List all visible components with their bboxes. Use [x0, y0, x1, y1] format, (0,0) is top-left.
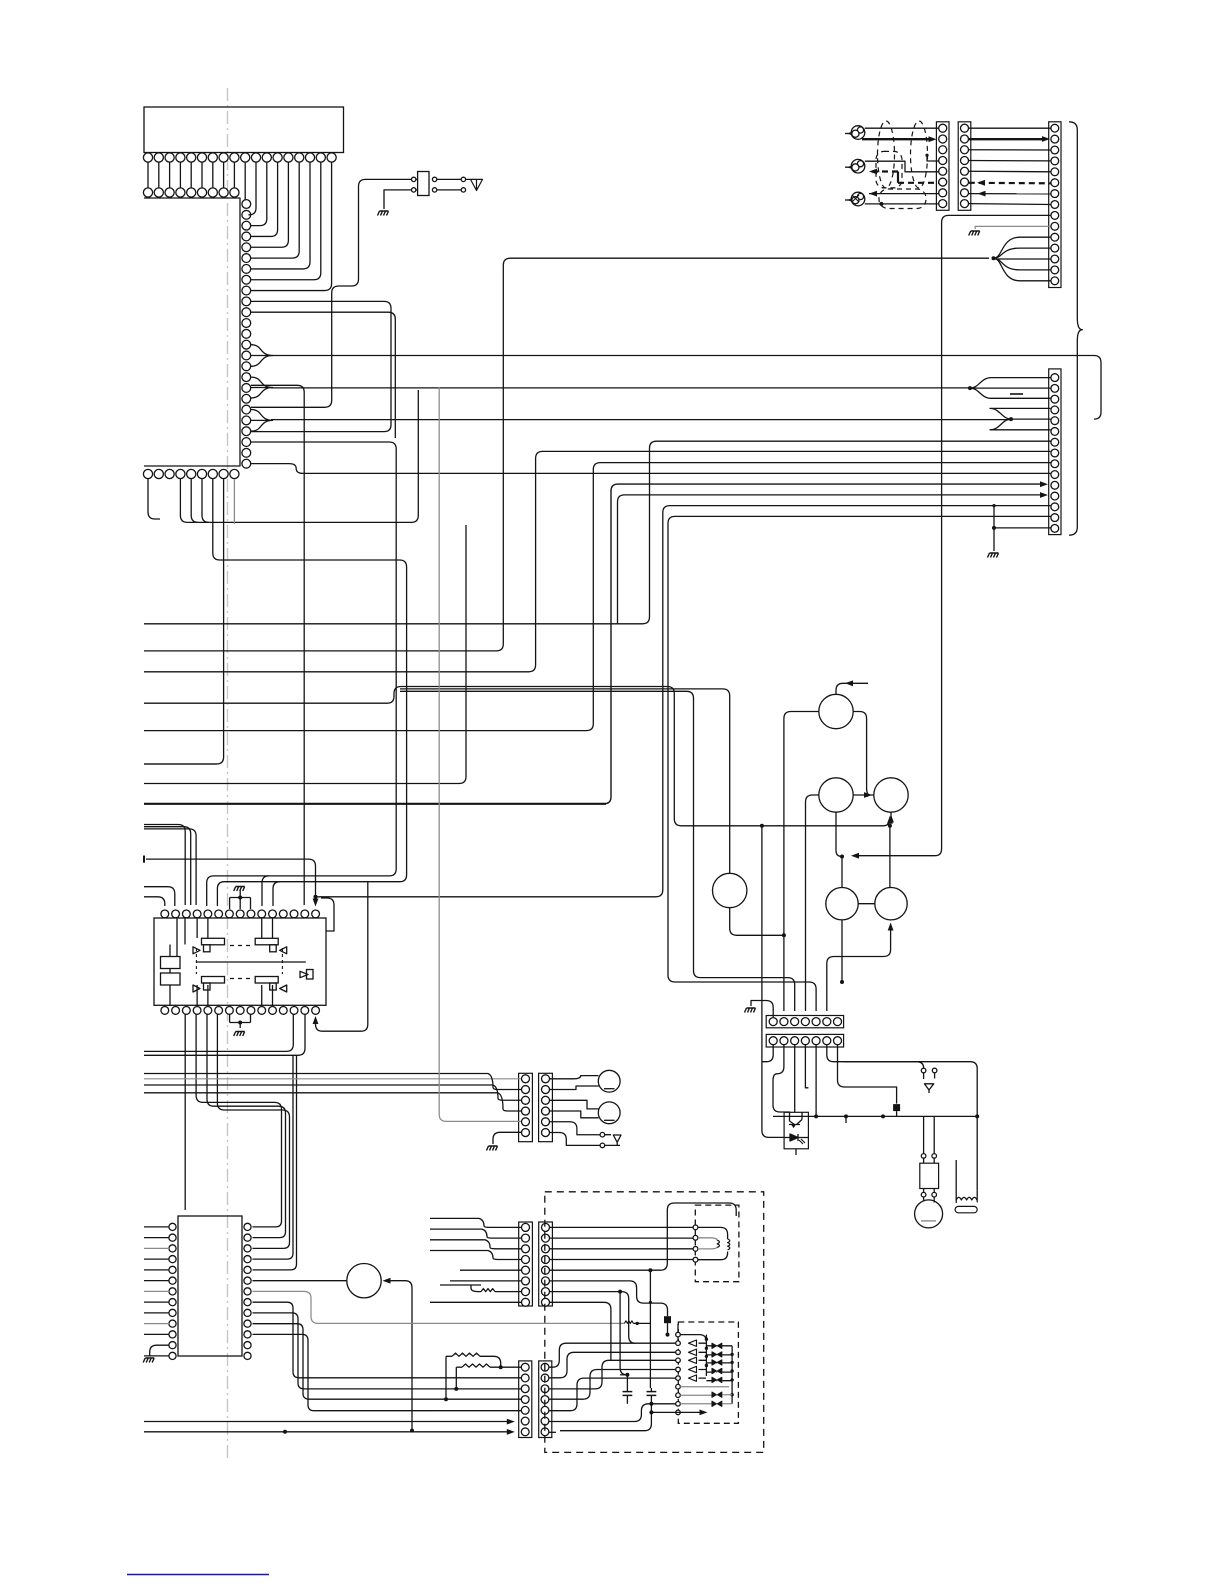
U2 top pins [161, 910, 169, 918]
RCA jack J1 [851, 126, 865, 140]
sensor wiring gray [680, 1387, 732, 1404]
wire fuse right links [437, 178, 461, 180]
wire M4 bottom [730, 908, 784, 936]
U2 bottom pins [161, 1007, 169, 1015]
wire bundle into IC3 right pins4-5 [253, 1055, 294, 1259]
wire CN6-B pin8 [550, 1302, 611, 1360]
wire CN6-B pins1-4 to TR box [550, 1226, 693, 1228]
capacitor C2 [650, 1388, 652, 1392]
wire M2 left drop [806, 795, 819, 1011]
wire merge IC1 col k16-18 [251, 377, 273, 398]
wire branch to optocoupler [762, 826, 784, 1138]
wire CN4-B pin1 drop [762, 1045, 774, 1062]
wire J1 to CN-A pin1 [865, 127, 939, 129]
wire CN-B CN1 bold pin2 [969, 138, 1043, 140]
wire band y650.9 to CN1 merge [144, 258, 989, 651]
head coil 2 [728, 1239, 730, 1250]
CN5-B pins [542, 1075, 550, 1083]
dashed box main [545, 1192, 764, 1453]
wire IC3 left pin12 ground [150, 1345, 169, 1356]
motor M8 [347, 1264, 381, 1298]
wire U2 bottom drops [184, 1015, 186, 1211]
CN1 pins [1051, 124, 1059, 132]
CN-B pins [961, 124, 969, 132]
wire J2 to CN-A pin5 [865, 161, 939, 172]
U4 transistor [789, 1112, 802, 1124]
wire M8 right [390, 1281, 412, 1431]
wire U2 right loop top [321, 898, 334, 931]
IC3 body [178, 1216, 242, 1356]
wire stub tick to U2 pin15 area [146, 859, 316, 901]
IC3 left pins [169, 1223, 176, 1230]
wire CN3 pin14 to CN4 [668, 516, 1051, 1011]
wires IC3 right pins8-11 down [253, 1302, 431, 1378]
wire coil right [976, 1190, 978, 1202]
connector CN1 body [1049, 122, 1061, 288]
S1 flag [605, 1135, 621, 1146]
wire drop x846 [845, 1116, 847, 1123]
U2 transistor Q-tr [255, 938, 278, 945]
wire CN5B pin5 to S1 [550, 1122, 600, 1135]
wire J2 dashed bold [872, 170, 898, 172]
wire band y803.8 bold to CN3 pin11 [144, 803, 606, 805]
wire CN4-B pin7 drop [838, 1045, 897, 1104]
wire IC1 pin7 to U2 pin6 [213, 479, 407, 906]
wire IC1 pin9 gray down [233, 479, 235, 524]
U2 internal resistor R-b [161, 973, 181, 985]
connector CN-B body [958, 122, 971, 211]
wire CN7 pin4 [430, 1398, 521, 1400]
wire CN4-B pin5 drop [815, 1045, 817, 1116]
wire CN4 pin1 ground [751, 1001, 773, 1018]
wire CN5 pin6 ground [493, 1132, 521, 1144]
wire bus IC1 pins4-6 right-up [180, 479, 187, 522]
bus line y1421.5 [144, 1421, 508, 1423]
IC3 right pins [244, 1223, 251, 1230]
wire CN-B CN1 pin7 arrow [969, 193, 1051, 195]
resistor R-cn6 pin7 [481, 1289, 495, 1292]
wire CN7 pin5 [430, 1410, 521, 1412]
wire CN4-B pin6 drop [827, 1045, 924, 1068]
sensor terminal circles [676, 1332, 681, 1337]
U2 mid rail [196, 961, 306, 963]
connector CN-A body [936, 122, 949, 211]
U4 led [790, 1134, 798, 1141]
wire band y730.6 to CN3 pin9 [144, 463, 1051, 731]
wire into U2 top pin1 [144, 897, 165, 906]
IC1 right pin column [242, 200, 251, 209]
RCA jack J2 [851, 159, 865, 173]
wires CN-B to CN1 [969, 127, 1051, 129]
motor M9 [598, 1070, 620, 1092]
dashed box head [695, 1205, 739, 1282]
U2 body [154, 918, 326, 1005]
wire CN6-B pin7 [550, 1292, 636, 1344]
CN3 pins [1051, 374, 1059, 382]
wire CN4-B pin2 drop [773, 1045, 790, 1112]
negation bar CN3 pin3 [1010, 393, 1023, 395]
wire band y703 S to M3 [144, 687, 890, 826]
U2 transistor Q-tl [202, 938, 225, 945]
wire col k10 stub [251, 312, 395, 438]
wire fan CN-top to IC1 side pins [244, 162, 246, 200]
wire band y691 to CN4 [400, 691, 795, 1011]
switch S1 [600, 1132, 605, 1137]
sensor feed square [664, 1316, 671, 1323]
shield box C [876, 151, 902, 188]
wire J1 bold to CN-A pin2 [862, 138, 929, 140]
connector CN4-B body [766, 1034, 843, 1047]
connector CN6-A body [519, 1222, 533, 1306]
wire CN5B pin2 to M9 [550, 1086, 599, 1090]
U2 dashes [230, 945, 254, 947]
fold line [227, 88, 229, 1462]
CN-A pins [939, 124, 947, 132]
wire band y783.5 [144, 525, 466, 784]
wire CN5 pins2-4 S-curves [420, 1074, 521, 1090]
CN6-A pins [522, 1223, 530, 1231]
wire right loop CN4 to coil [844, 1062, 978, 1191]
wire U2 bottom to left y1055 [144, 1015, 305, 1056]
photo sensors triangles [689, 1340, 697, 1346]
motor M5 [826, 888, 858, 920]
wire M2 bottom junction [836, 812, 842, 887]
wire CN5 pin5 gray [439, 388, 521, 1122]
wire stub U2 pin11 curve [273, 882, 280, 906]
sensor bus right vert [731, 1346, 733, 1404]
sensor wiring [680, 1335, 706, 1342]
wire col k9 loop [251, 301, 391, 431]
wire merge IC1 col k19-21 [251, 410, 273, 432]
fuse terminal circles [412, 177, 416, 181]
wire IC3 pin7 gray [253, 1291, 625, 1323]
connector CN6-B body [539, 1222, 553, 1306]
fuse body [418, 172, 429, 196]
CN5-A pins [522, 1075, 530, 1083]
bus line y1431.8 [144, 1431, 508, 1433]
RCA jack J3 [851, 192, 865, 206]
IC1 bottom pin row [143, 469, 152, 478]
wire col k24 to CN3 pin10 [251, 464, 1051, 474]
IC1 top pin row [143, 188, 152, 197]
ground below U2 [239, 1023, 241, 1029]
connector CN3 body [1049, 369, 1061, 535]
U2 internal verticals [196, 918, 198, 938]
connector CN5-B body [539, 1073, 553, 1141]
wire S3 to R [923, 1158, 925, 1163]
U2 right triangle [300, 971, 308, 977]
wire M4 top [400, 689, 730, 873]
wire line y387 to CN3 pins1-3 [271, 387, 970, 389]
wire CN7 pin3 [430, 1388, 521, 1390]
CN4-B pins [769, 1037, 777, 1045]
CN-top pins [143, 153, 152, 162]
wire U2 bottom bus to IC3 [196, 1015, 281, 1227]
switch S2 [921, 1068, 926, 1073]
wire J3 to CN-A pin8 [865, 203, 939, 205]
wire M5 bottom [841, 920, 843, 982]
wire CN4-B pin3 drop [794, 1045, 796, 1112]
CN4-A pins [769, 1018, 777, 1026]
wire U4 bottom exit [795, 1149, 797, 1155]
wire into U2 top pin2 [144, 887, 175, 906]
wire line y419 to CN3 pins4-6 [271, 419, 1011, 421]
wire band y764 [144, 763, 217, 765]
sensor row10 arrow [653, 1411, 700, 1413]
wire CN3 pin15 + ground [994, 506, 1051, 528]
wire M1 left drop [784, 712, 819, 1012]
wire CN6-B pin6 [550, 1281, 668, 1316]
wire M6 bottom to CN4 pin6 [827, 925, 891, 1012]
wire CN1 pin9 big corner [853, 215, 1051, 855]
wire CN1 pin10 ground [975, 226, 1050, 229]
off-page arrow near fuse [466, 179, 483, 190]
wire CN1 pins11-15 merge [994, 237, 1051, 258]
head winding wires [698, 1227, 728, 1259]
connector CN7-A body [519, 1361, 532, 1438]
motor M6 [875, 888, 907, 920]
motor M10 [598, 1102, 620, 1124]
sensor bus left vert [705, 1335, 707, 1376]
resistor branch b [445, 1356, 447, 1399]
shield ellipse B [911, 121, 928, 188]
IC1 body outline [144, 198, 240, 466]
wire stub U2 pin10 curve [262, 876, 269, 906]
wire cap rail [620, 1374, 627, 1376]
shield stadium D [879, 189, 926, 209]
wire CN5 feeds from left [144, 1073, 420, 1075]
connector CN7-B body [539, 1361, 552, 1438]
U2 internal link [169, 945, 171, 957]
brace right [1069, 122, 1082, 535]
wires CN6-A feeds pins5-8 [430, 1270, 521, 1302]
wire CN6-B pin5 [550, 1203, 736, 1270]
motor M7 [915, 1200, 943, 1228]
footer rule [127, 1574, 269, 1576]
wire CN5B pin1 to M9 [550, 1076, 599, 1079]
wire M3 bottom arrow [890, 812, 892, 823]
resistor R-M7 body [920, 1163, 939, 1188]
wire CN3 pin13 to U2 pin15 [316, 506, 1051, 897]
wire CN5 pin1 feed gray [144, 1078, 521, 1080]
switch S3 contacts [921, 1154, 926, 1159]
wires CN-top to IC1 top pins [147, 162, 149, 188]
wire CN7 pin2 [430, 1377, 521, 1379]
wire M1 top arrow [836, 683, 868, 694]
wire band y623.8 to CN3 pin7 [144, 441, 1051, 624]
CN6-B pins [542, 1223, 550, 1231]
wire c2 bottom exit [560, 1404, 651, 1431]
LED pairs [712, 1343, 722, 1348]
wire CN4-B pin4 drop [805, 1045, 808, 1088]
wire IC3 pin6 to M8 [253, 1280, 348, 1282]
U2 internal resistor R-a [161, 957, 181, 969]
head coil 1 [717, 1240, 719, 1247]
wire CN-A pin4 jog [927, 156, 939, 162]
CN7-B pins [541, 1363, 549, 1371]
wire CN-B CN1 dashed pin6 [969, 182, 1051, 185]
wire line y355 right [271, 356, 1101, 420]
optocoupler U4 box [784, 1112, 808, 1149]
wire fuse feed left [251, 179, 417, 407]
wire merge IC1 col k13-15 [251, 345, 273, 367]
wire M6 top from junction [889, 826, 891, 888]
wire rail y1116 [773, 1115, 977, 1117]
connector CN4-A body [766, 1016, 843, 1028]
dashed box sensors [678, 1322, 738, 1423]
test square [893, 1104, 900, 1111]
capacitor C1 [626, 1375, 628, 1392]
motor M4 [713, 873, 747, 907]
coil L1 [955, 1160, 957, 1203]
wire M1 right to M3 [853, 712, 870, 796]
wire M5-M6 link [858, 903, 875, 905]
coil plunger [955, 1206, 977, 1212]
sensor col vertical [677, 1324, 679, 1332]
wire J3 to CN-A pin7 [869, 193, 939, 195]
wire col k22 to U2 pin5 [207, 442, 397, 906]
wire CN5B pin4 to M10 [550, 1111, 599, 1118]
wire CN5B pin6 to S1 lower [550, 1133, 600, 1146]
shield ellipse A [878, 121, 895, 188]
wire fuse lower-left to ground [384, 190, 417, 209]
motor M1 [819, 694, 853, 728]
ground above U2 [234, 887, 245, 892]
wire col area to U2 pin14 [251, 385, 304, 905]
wire riser to CN3 pin12 [618, 495, 1041, 624]
CN7-A pins [521, 1363, 529, 1371]
wires CN6-A feeds pins1-4 [430, 1218, 521, 1227]
connector CN5-A body [519, 1073, 533, 1141]
connector CN-top body [144, 107, 344, 153]
ground fuse [378, 211, 389, 216]
wire U2 pin15 bottom arrow [316, 882, 368, 1031]
wire M7 top [923, 1197, 925, 1202]
wire CN5B pin3 to M10 [550, 1100, 599, 1109]
wire M2-M3 link [853, 794, 874, 796]
U2 transistor Q-br [255, 977, 278, 984]
wire U2 bottom to left y1051 [144, 1015, 293, 1052]
wires CN7-B fan [549, 1343, 675, 1367]
R to M7 contacts [921, 1192, 926, 1197]
wire IC1 bottom pin1 stub [148, 479, 160, 519]
wire trio left to U2 top pins 2-4 [144, 825, 185, 906]
wire band y671.8 to CN3 pin8 [144, 451, 1051, 671]
motor M2 [819, 778, 853, 812]
head circles [693, 1225, 698, 1230]
wire IC1 pin8 down-left exit [144, 479, 224, 764]
wires IC3 left feeds [144, 1226, 169, 1228]
resistor branch a [455, 1367, 457, 1389]
motor M3 [874, 778, 908, 812]
U2 transistor Q-bl [202, 977, 225, 984]
